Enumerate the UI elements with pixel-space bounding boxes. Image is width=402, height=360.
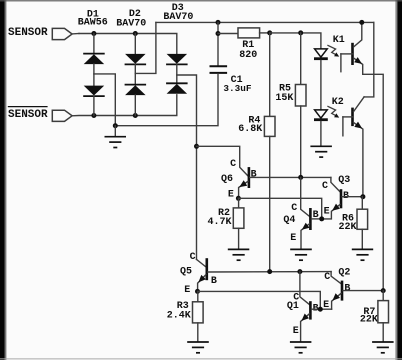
ground symbol below R2 bbox=[228, 249, 250, 260]
diode D1 upper (cathode up) bbox=[83, 54, 105, 65]
wire D3 common-cathode tap to Q5/Q6 column bbox=[177, 75, 197, 259]
wire R5 bottom lead to Q6 base rail bbox=[300, 106, 302, 177]
capacitor C1 plates bbox=[210, 66, 228, 73]
node Q5 base - R4 bbox=[267, 269, 272, 274]
label 15K bbox=[275, 93, 293, 104]
Q2 emitter bbox=[332, 293, 341, 309]
label C1 bbox=[231, 75, 243, 86]
label BAW56 bbox=[78, 18, 108, 29]
connector J1 (top sensor) bbox=[52, 28, 72, 39]
transistor Q1 bar bbox=[309, 301, 312, 319]
wire D3 mid lead bbox=[176, 64, 178, 83]
label E (Q3) bbox=[324, 207, 330, 218]
svg-text:820: 820 bbox=[239, 50, 257, 61]
node rail - R5 column bbox=[298, 30, 303, 35]
video frame left black bar bbox=[0, 0, 6, 360]
svg-text:3.3uF: 3.3uF bbox=[223, 83, 252, 94]
label R1 bbox=[242, 40, 254, 51]
resistor R2 bbox=[233, 208, 244, 228]
label B (Q3) bbox=[343, 191, 349, 202]
label Q3 bbox=[338, 175, 350, 186]
svg-text:E: E bbox=[324, 207, 330, 218]
wire R3 top lead bbox=[197, 291, 199, 301]
node Q2 base - K1 emitter - R7 bbox=[381, 288, 386, 293]
label B (Q6) bbox=[251, 170, 257, 181]
svg-text:C: C bbox=[324, 272, 330, 283]
svg-text:C: C bbox=[322, 181, 328, 192]
svg-text:BAV70: BAV70 bbox=[163, 12, 193, 23]
ground symbol below Q4 bbox=[290, 249, 312, 260]
wire sensor1 to rail bbox=[72, 33, 79, 35]
phototransistor K2 bar bbox=[351, 108, 354, 127]
label Q2 bbox=[338, 268, 350, 279]
video frame top edge line bbox=[0, 0, 402, 2]
label R7 bbox=[363, 307, 375, 318]
Q5 emitter arrow bbox=[198, 275, 206, 283]
label SENSOR (top input) bbox=[8, 27, 48, 39]
transistor Q6 bar bbox=[248, 167, 251, 188]
label 6.8K bbox=[238, 124, 262, 135]
svg-text:E: E bbox=[323, 300, 329, 311]
node sensor1-D1 bbox=[91, 31, 96, 36]
svg-text:B: B bbox=[251, 170, 257, 181]
wire R4 top lead bbox=[269, 33, 271, 117]
opto K2 coupling arrow bbox=[328, 106, 339, 117]
diode D3 upper (cathode down) bbox=[166, 54, 188, 65]
K2 emitter arrow bbox=[354, 122, 362, 129]
LED of optocoupler K2 bbox=[314, 110, 328, 120]
label B (Q5) bbox=[211, 276, 217, 287]
label E (Q2) bbox=[323, 300, 329, 311]
K2 base stub bbox=[343, 117, 353, 136]
label K2 bbox=[332, 97, 344, 108]
label Q6 bbox=[221, 174, 233, 185]
node Q6 base rail - R5/Q4 column bbox=[298, 175, 303, 180]
Q4 emitter bbox=[301, 224, 309, 249]
node Q5 emitter - R3 bbox=[195, 289, 200, 294]
resistor R1 (horizontal) bbox=[238, 28, 260, 38]
wire K1 LED cathode to K2 LED anode bbox=[320, 60, 322, 110]
video frame bottom edge line bbox=[0, 358, 402, 360]
svg-text:Q2: Q2 bbox=[338, 268, 350, 279]
wire R6 top lead bbox=[361, 197, 363, 210]
K1 emitter bbox=[354, 58, 384, 291]
wire sensor2 rail bbox=[72, 95, 177, 116]
label B (Q4) bbox=[313, 210, 319, 221]
label C (Q2) bbox=[324, 272, 330, 283]
label 820 bbox=[239, 50, 257, 61]
svg-text:Q6: Q6 bbox=[221, 174, 233, 185]
wire D1 mid lead bbox=[93, 64, 95, 86]
Q3 collector wire bbox=[331, 177, 340, 191]
node Q3 base - K2 emitter - R6 bbox=[360, 194, 365, 199]
label SENSOR (bottom input, inverted) bbox=[8, 107, 48, 121]
K2 collector bbox=[354, 97, 365, 112]
wire R2 top lead bbox=[238, 198, 240, 208]
Q6 base rail bbox=[250, 176, 331, 178]
Q4 emitter arrow bbox=[302, 223, 310, 230]
wire R1 right lead bbox=[260, 32, 270, 34]
LED of optocoupler K1 bbox=[314, 49, 328, 59]
wire R4 bottom lead to Q5 base rail bbox=[269, 136, 271, 271]
label C (Q1) bbox=[293, 293, 299, 304]
wire R1 rail segment bbox=[218, 33, 238, 35]
label B (Q1) bbox=[313, 304, 319, 315]
label Q1 bbox=[287, 301, 299, 312]
svg-text:SENSOR: SENSOR bbox=[8, 27, 48, 39]
label R6 bbox=[342, 213, 354, 224]
Q5 collector wire bbox=[197, 259, 206, 266]
Q6 emitter rail bbox=[238, 198, 321, 219]
wire D1 bottom lead bbox=[93, 96, 95, 115]
node Q1 base - Q5 emitter - Q2 emitter bbox=[318, 307, 323, 312]
Q4 base wire bbox=[311, 218, 321, 220]
resistor R4 bbox=[264, 116, 275, 136]
K1 base stub bbox=[341, 54, 353, 72]
transistor Q2 bar bbox=[341, 281, 344, 301]
wire top supply rail bbox=[156, 21, 374, 23]
label K1 bbox=[333, 35, 345, 46]
Q2 collector wire bbox=[331, 272, 341, 284]
opto K1 coupling arrow bbox=[328, 45, 339, 56]
K1 collector bbox=[354, 22, 362, 47]
label E (Q4) bbox=[290, 233, 296, 244]
ground symbol below R6 bbox=[352, 249, 373, 260]
node Q6 collector tap bbox=[194, 144, 199, 149]
svg-text:E: E bbox=[184, 285, 190, 296]
svg-text:C: C bbox=[230, 159, 236, 170]
ground symbol below R3 bbox=[187, 342, 209, 353]
wire K2 LED cathode to ground bbox=[320, 121, 322, 146]
svg-text:BAW56: BAW56 bbox=[78, 18, 108, 29]
Q3 base wire bbox=[342, 196, 362, 198]
label E (Q6) bbox=[228, 190, 234, 201]
node Q4 base - Q3 emitter - Q6 emitter bbox=[319, 216, 324, 221]
svg-text:4.7K: 4.7K bbox=[207, 217, 231, 228]
label R4 bbox=[248, 115, 260, 126]
svg-text:22K: 22K bbox=[360, 314, 378, 325]
label 3.3uF bbox=[223, 83, 252, 94]
Q6 emitter arrow bbox=[239, 180, 247, 187]
Q6 collector wire bbox=[197, 146, 248, 176]
label BAV70 (D2) bbox=[116, 18, 146, 29]
diode D2 lower (cathode up) bbox=[125, 85, 147, 96]
Q5 emitter bbox=[198, 275, 206, 292]
wire D2 top lead bbox=[134, 34, 136, 54]
node sensor1-D2 bbox=[133, 31, 138, 36]
node sensor2-D1 bbox=[91, 113, 96, 118]
svg-text:B: B bbox=[211, 276, 217, 287]
node top rail - C1 column bbox=[216, 20, 221, 25]
node Q5 base - Q1 collector bbox=[297, 269, 302, 274]
wire R2 bottom lead bbox=[238, 228, 240, 249]
label 2.4K bbox=[167, 310, 191, 321]
wire D2 common-cathode tap to top rail bbox=[135, 22, 156, 73]
label C (Q5) bbox=[190, 252, 196, 263]
label D1 bbox=[87, 9, 99, 20]
label R5 bbox=[279, 84, 291, 95]
svg-text:SENSOR: SENSOR bbox=[8, 109, 48, 121]
label Q5 bbox=[180, 267, 192, 278]
wire D1 top lead bbox=[93, 34, 95, 54]
Q1 collector wire bbox=[300, 272, 310, 305]
wire R7 top lead bbox=[382, 291, 384, 301]
label D3 bbox=[172, 3, 184, 14]
diode D3 lower (cathode up) bbox=[166, 83, 188, 94]
svg-text:K2: K2 bbox=[332, 97, 344, 108]
label B (Q2) bbox=[344, 283, 350, 294]
node ground rail - D1 tap bbox=[113, 123, 118, 128]
Q1 base wire bbox=[311, 308, 331, 310]
wire D1 common-anode tap to ground bbox=[94, 74, 115, 126]
K1 emitter arrow bbox=[354, 57, 362, 64]
wire R6 bottom lead bbox=[361, 229, 363, 249]
svg-text:22K: 22K bbox=[338, 222, 356, 233]
connector J2 (bottom sensor) bbox=[52, 110, 72, 121]
Q2 base wire bbox=[343, 290, 383, 292]
wire rail R4-node to R5-node to K1 LED bbox=[270, 33, 321, 48]
node Q6 emitter - R2 bbox=[236, 196, 241, 201]
label 22K (R7) bbox=[360, 314, 378, 325]
Q3 emitter bbox=[322, 205, 340, 219]
label C (Q6) bbox=[230, 159, 236, 170]
svg-text:2.4K: 2.4K bbox=[167, 310, 191, 321]
Q4 collector wire bbox=[301, 177, 310, 216]
wire R7 bottom lead bbox=[382, 323, 384, 342]
node R1 - R4 column bbox=[267, 30, 272, 35]
label R2 bbox=[218, 208, 230, 219]
Q3 emitter arrow bbox=[332, 204, 340, 211]
ground symbol below LEDs bbox=[310, 146, 332, 157]
svg-text:E: E bbox=[293, 326, 299, 337]
svg-text:BAV70: BAV70 bbox=[116, 18, 146, 29]
svg-text:B: B bbox=[344, 283, 350, 294]
Q5 base rail bbox=[208, 271, 331, 273]
svg-text:E: E bbox=[290, 233, 296, 244]
wire R5 top lead bbox=[300, 33, 302, 85]
wire D2 mid lead bbox=[134, 64, 136, 84]
ground symbol below diodes bbox=[105, 137, 127, 148]
label C (Q3) bbox=[322, 181, 328, 192]
label 4.7K bbox=[207, 217, 231, 228]
svg-text:6.8K: 6.8K bbox=[238, 124, 262, 135]
Q6 emitter bbox=[239, 181, 248, 198]
video frame right black bar bbox=[395, 0, 402, 360]
wire ground stem below diodes bbox=[114, 126, 116, 137]
Q5 emitter rail to Q1 base bbox=[198, 291, 321, 309]
wire C1 bottom to ground rail bbox=[115, 74, 218, 126]
Q2 emitter arrow bbox=[332, 293, 340, 300]
Q1 emitter arrow bbox=[301, 314, 309, 321]
transistor Q3 bar bbox=[340, 189, 343, 208]
ground symbol below Q1 bbox=[290, 342, 312, 353]
resistor R6 bbox=[357, 209, 368, 229]
svg-text:15K: 15K bbox=[275, 93, 293, 104]
resistor R5 bbox=[295, 85, 306, 107]
label D2 bbox=[129, 9, 141, 20]
diode D2 upper (cathode down) bbox=[125, 54, 147, 65]
node sensor2-D2 bbox=[133, 113, 138, 118]
wire C1 column from top rail bbox=[217, 22, 219, 65]
transistor Q4 bar bbox=[309, 208, 312, 230]
node top rail - K1 collector bbox=[359, 20, 364, 25]
label BAV70 (D3) bbox=[163, 12, 193, 23]
label E (Q1) bbox=[293, 326, 299, 337]
label R3 bbox=[177, 301, 189, 312]
transistor Q5 bar bbox=[206, 258, 209, 280]
resistor R3 bbox=[193, 302, 204, 323]
label Q4 bbox=[283, 215, 295, 226]
Q1 emitter bbox=[301, 314, 310, 342]
label 22K (R6) bbox=[338, 222, 356, 233]
svg-text:C: C bbox=[293, 293, 299, 304]
ground symbol below R7 bbox=[372, 342, 394, 353]
svg-text:Q5: Q5 bbox=[180, 267, 192, 278]
label E (Q5) bbox=[184, 285, 190, 296]
svg-text:C: C bbox=[291, 203, 297, 214]
svg-text:C: C bbox=[190, 252, 196, 263]
wire top rail corner to K2 collector bbox=[364, 22, 374, 97]
svg-text:Q3: Q3 bbox=[338, 175, 350, 186]
label C (Q4) bbox=[291, 203, 297, 214]
svg-text:E: E bbox=[228, 190, 234, 201]
K2 emitter bbox=[354, 122, 363, 196]
wire D2 bottom lead bbox=[134, 95, 136, 115]
wire R3 bottom lead bbox=[197, 323, 199, 342]
wire sensor1 rail bbox=[79, 34, 177, 54]
diode D1 lower (cathode down) bbox=[83, 86, 105, 97]
svg-text:K1: K1 bbox=[333, 35, 345, 46]
node C1 column - R1 rail bbox=[216, 31, 221, 36]
svg-text:Q4: Q4 bbox=[283, 215, 295, 226]
resistor R7 bbox=[378, 301, 389, 323]
phototransistor K1 bar bbox=[351, 43, 354, 65]
